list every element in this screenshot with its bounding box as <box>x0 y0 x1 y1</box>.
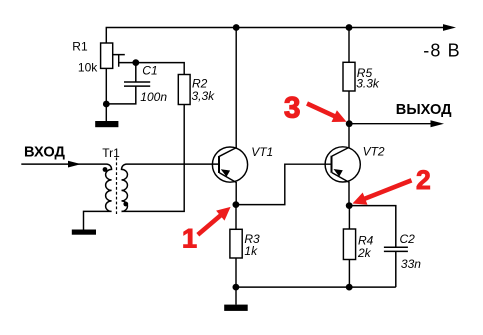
svg-text:ВХОД: ВХОД <box>24 144 65 160</box>
svg-text:C1: C1 <box>142 64 157 78</box>
svg-text:Tr1: Tr1 <box>102 146 120 160</box>
svg-text:33n: 33n <box>401 257 421 271</box>
svg-text:3,3k: 3,3k <box>192 89 216 103</box>
svg-text:VT1: VT1 <box>251 145 273 159</box>
svg-text:R1: R1 <box>72 39 88 53</box>
svg-text:10k: 10k <box>78 61 98 75</box>
svg-text:1k: 1k <box>244 244 258 258</box>
svg-text:100n: 100n <box>140 90 167 104</box>
svg-text:ВЫХОД: ВЫХОД <box>396 102 452 118</box>
svg-text:2k: 2k <box>357 246 372 260</box>
svg-text:3.3k: 3.3k <box>356 76 380 90</box>
svg-text:1: 1 <box>182 223 197 253</box>
svg-text:3: 3 <box>284 91 300 124</box>
svg-text:-8 В: -8 В <box>423 40 460 60</box>
svg-text:2: 2 <box>416 165 431 195</box>
svg-text:VT2: VT2 <box>363 145 385 159</box>
svg-text:C2: C2 <box>400 232 416 246</box>
